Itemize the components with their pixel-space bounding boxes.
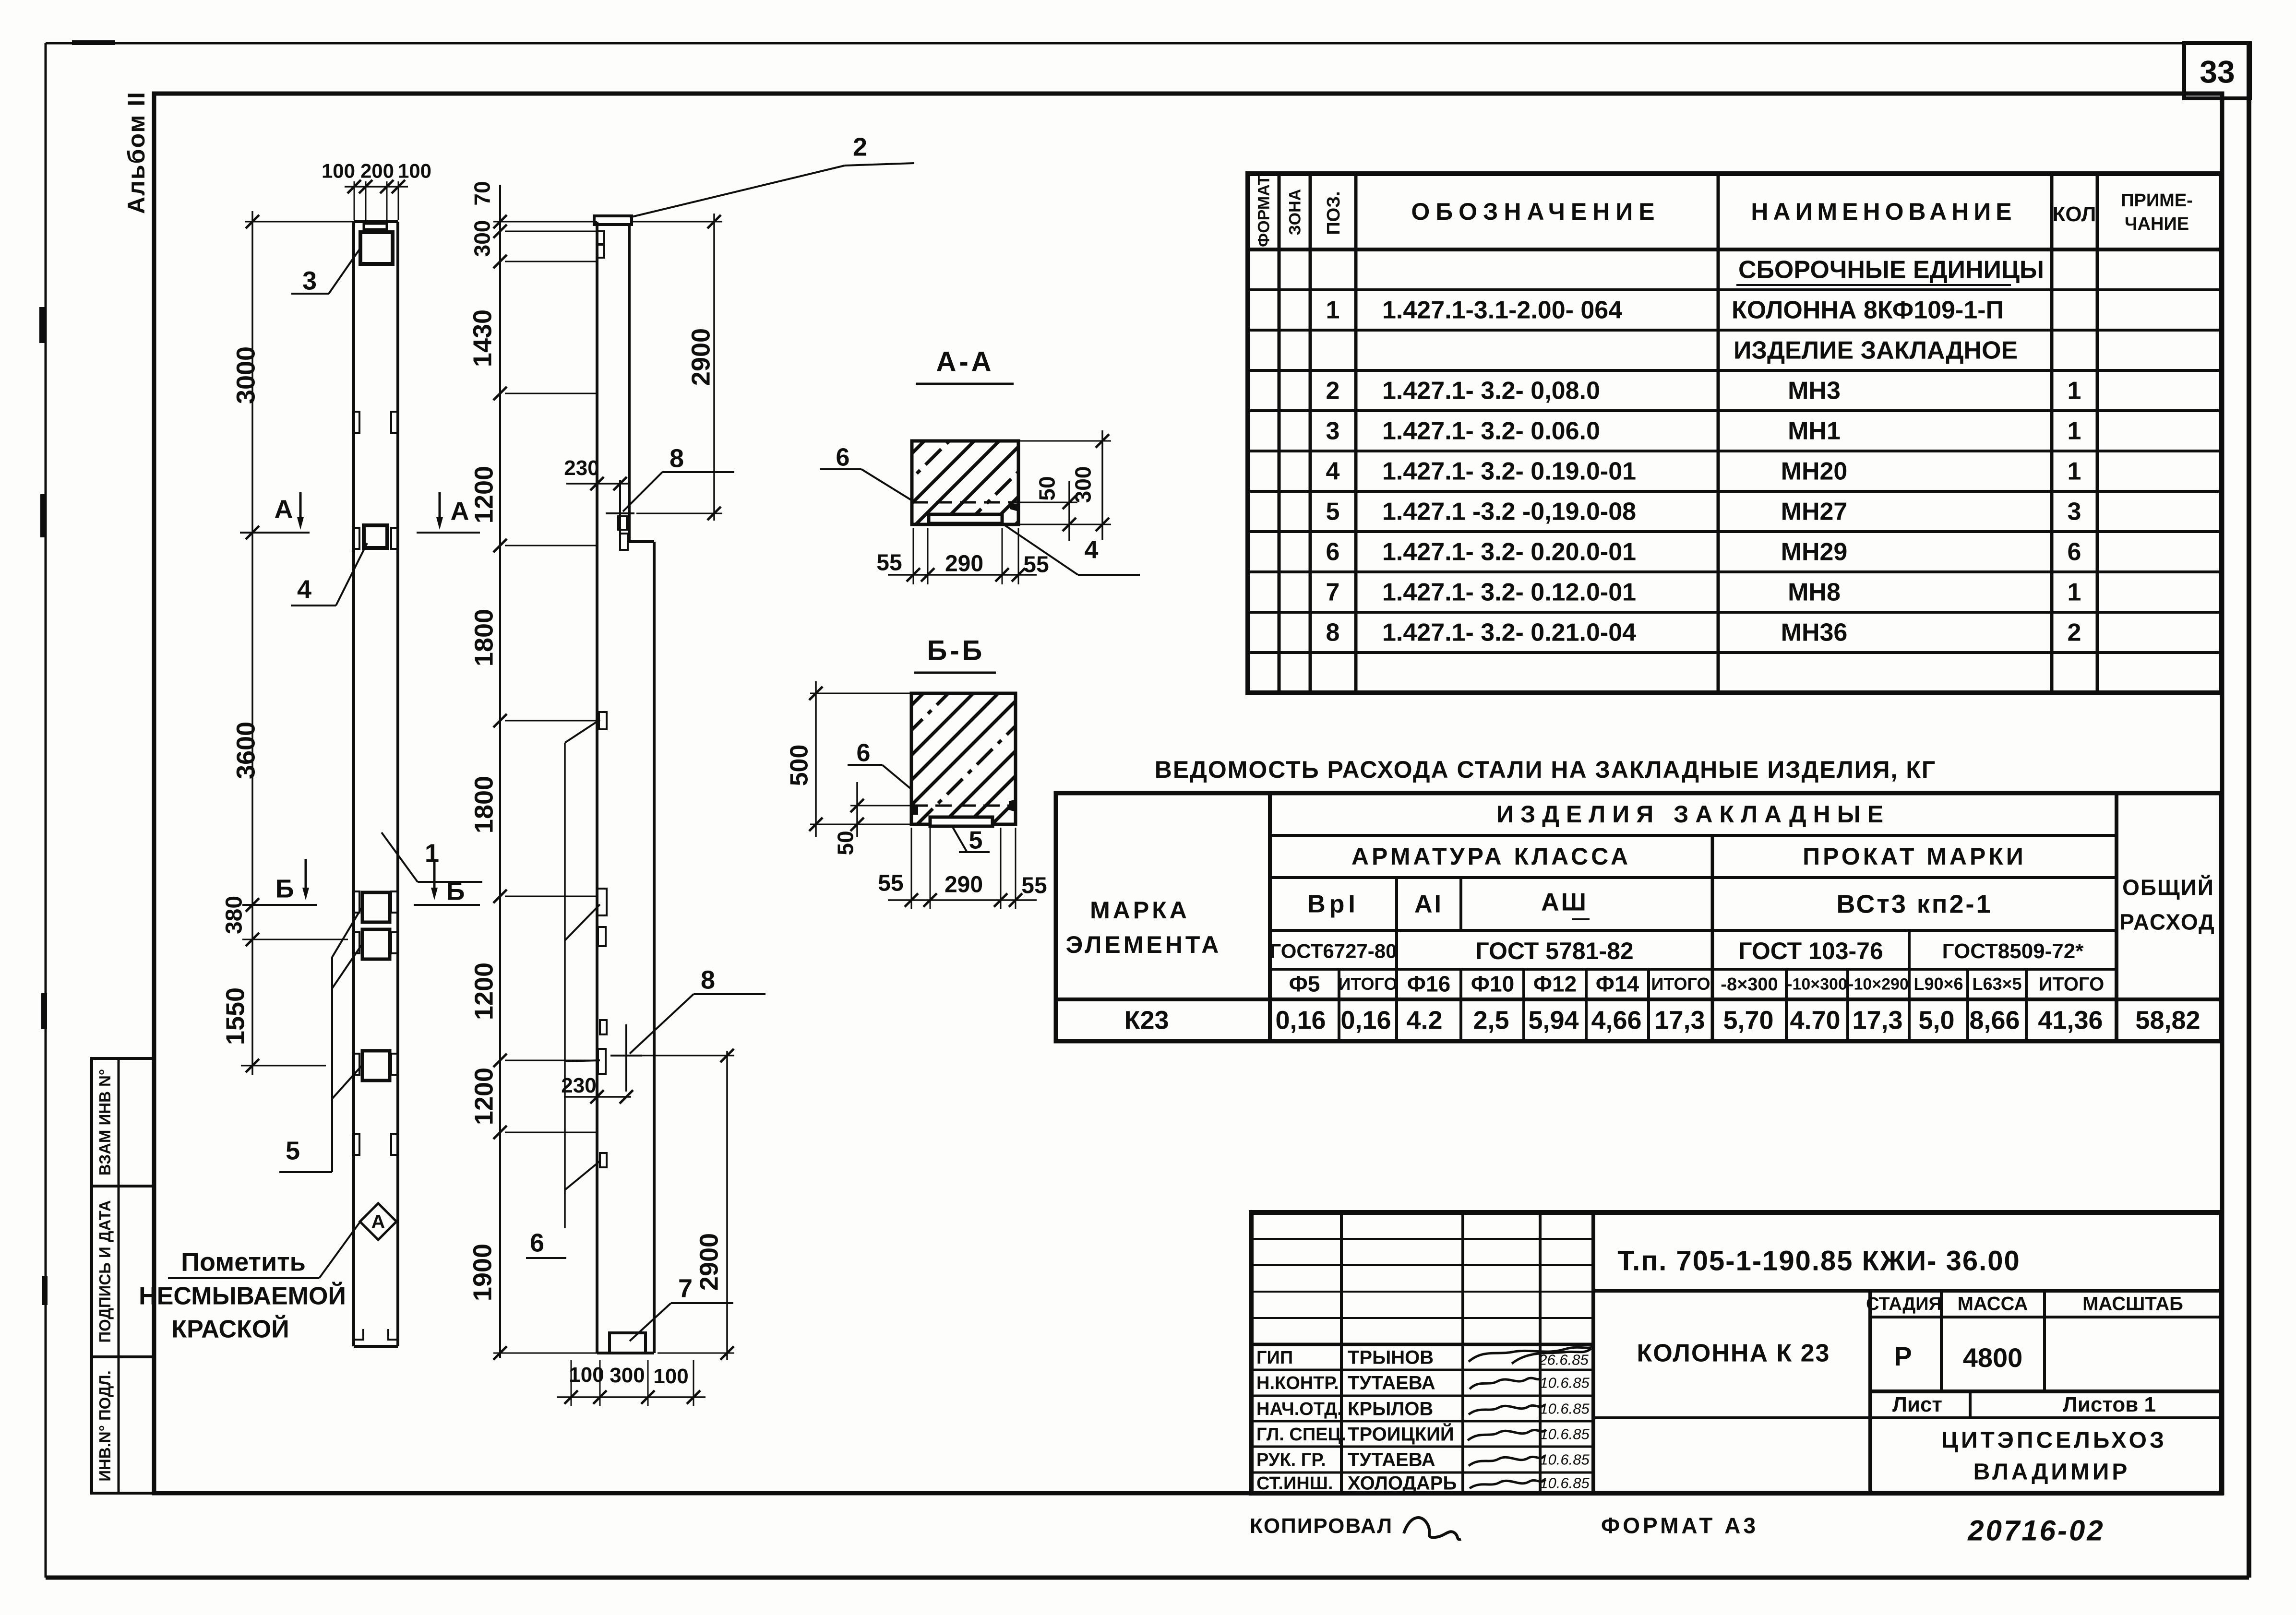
svg-text:Ф10: Ф10 <box>1471 972 1514 997</box>
svg-text:Ф16: Ф16 <box>1407 972 1450 997</box>
svg-text:Б: Б <box>275 874 294 903</box>
svg-text:100: 100 <box>322 159 355 182</box>
svg-text:6: 6 <box>1326 538 1340 566</box>
svg-text:А-А: А-А <box>936 346 994 378</box>
svg-text:Листов 1: Листов 1 <box>2063 1393 2156 1416</box>
svg-text:АШ: АШ <box>1541 889 1588 916</box>
svg-text:А: А <box>371 1211 385 1233</box>
svg-text:4.2: 4.2 <box>1406 1006 1442 1034</box>
svg-text:НАИМЕНОВАНИЕ: НАИМЕНОВАНИЕ <box>1751 198 2016 225</box>
svg-text:-8×300: -8×300 <box>1721 974 1778 995</box>
svg-text:МН8: МН8 <box>1788 579 1841 606</box>
svg-text:10.6.85: 10.6.85 <box>1540 1451 1590 1468</box>
svg-text:ТРЫНОВ: ТРЫНОВ <box>1348 1347 1434 1368</box>
svg-text:1900: 1900 <box>468 1244 497 1301</box>
svg-text:6: 6 <box>836 444 850 472</box>
svg-text:5: 5 <box>969 827 983 855</box>
svg-text:10.6.85: 10.6.85 <box>1540 1426 1590 1443</box>
svg-text:А: А <box>275 495 293 523</box>
svg-text:ГОСТ8509-72*: ГОСТ8509-72* <box>1942 939 2084 963</box>
svg-text:ИЗДЕЛИЯ ЗАКЛАДНЫЕ: ИЗДЕЛИЯ ЗАКЛАДНЫЕ <box>1496 801 1890 828</box>
svg-text:1430: 1430 <box>468 309 497 367</box>
svg-text:290: 290 <box>945 872 983 897</box>
svg-text:6: 6 <box>2068 538 2081 566</box>
svg-text:ОБЩИЙ: ОБЩИЙ <box>2122 875 2214 900</box>
svg-text:5,70: 5,70 <box>1723 1006 1773 1034</box>
svg-text:ГИП: ГИП <box>1256 1348 1293 1368</box>
svg-text:КОЛОННА 8КФ109-1-П: КОЛОННА 8КФ109-1-П <box>1732 297 2004 324</box>
svg-text:3000: 3000 <box>231 346 260 404</box>
svg-text:1.427.1- 3.2- 0.20.0-01: 1.427.1- 3.2- 0.20.0-01 <box>1382 538 1636 566</box>
svg-text:КРЫЛОВ: КРЫЛОВ <box>1348 1399 1433 1420</box>
svg-text:Н.КОНТР.: Н.КОНТР. <box>1256 1373 1339 1393</box>
svg-text:-10×290: -10×290 <box>1848 975 1909 994</box>
svg-text:МН29: МН29 <box>1781 538 1848 566</box>
svg-text:20716-02: 20716-02 <box>1967 1514 2105 1546</box>
svg-text:1: 1 <box>2068 458 2081 486</box>
svg-text:55: 55 <box>1023 552 1049 577</box>
svg-text:17,3: 17,3 <box>1852 1006 1902 1034</box>
svg-text:ВСт3 кп2-1: ВСт3 кп2-1 <box>1836 890 1992 918</box>
svg-text:0,16: 0,16 <box>1275 1006 1326 1034</box>
svg-text:ГОСТ 103-76: ГОСТ 103-76 <box>1738 938 1883 964</box>
svg-text:10.6.85: 10.6.85 <box>1540 1401 1590 1417</box>
svg-text:КОПИРОВАЛ: КОПИРОВАЛ <box>1250 1514 1393 1538</box>
svg-text:41,36: 41,36 <box>2038 1006 2103 1034</box>
svg-text:ВЛАДИМИР: ВЛАДИМИР <box>1973 1459 2130 1484</box>
svg-text:Ф5: Ф5 <box>1289 972 1320 997</box>
svg-text:ПРОКАТ МАРКИ: ПРОКАТ МАРКИ <box>1803 843 2026 870</box>
svg-text:10.6.85: 10.6.85 <box>1540 1375 1590 1391</box>
svg-text:ОБОЗНАЧЕНИЕ: ОБОЗНАЧЕНИЕ <box>1411 198 1660 225</box>
svg-text:1200: 1200 <box>469 466 498 523</box>
svg-text:380: 380 <box>221 896 247 934</box>
svg-text:1: 1 <box>1326 297 1340 324</box>
svg-text:МАССА: МАССА <box>1958 1294 2028 1315</box>
svg-text:3: 3 <box>1326 417 1340 445</box>
svg-text:Р: Р <box>1894 1341 1912 1371</box>
svg-text:1: 1 <box>2068 377 2081 405</box>
svg-text:ЗОНА: ЗОНА <box>1286 189 1304 235</box>
svg-text:Альбом II: Альбом II <box>123 91 150 214</box>
svg-text:Ф14: Ф14 <box>1596 972 1639 997</box>
svg-text:КРАСКОЙ: КРАСКОЙ <box>171 1315 289 1343</box>
svg-text:7: 7 <box>1326 579 1340 606</box>
svg-text:ПРИМЕ-: ПРИМЕ- <box>2121 190 2193 211</box>
svg-text:ЭЛЕМЕНТА: ЭЛЕМЕНТА <box>1066 931 1222 958</box>
svg-text:1.427.1- 3.2- 0,08.0: 1.427.1- 3.2- 0,08.0 <box>1382 377 1600 405</box>
svg-text:4: 4 <box>1085 536 1099 564</box>
svg-text:1200: 1200 <box>469 962 498 1020</box>
svg-text:8: 8 <box>670 444 684 473</box>
svg-text:ФОРМАТ А3: ФОРМАТ А3 <box>1601 1513 1758 1538</box>
svg-text:ВЗАМ ИНВ N°: ВЗАМ ИНВ N° <box>96 1069 114 1176</box>
svg-text:МН1: МН1 <box>1788 417 1841 445</box>
svg-text:6: 6 <box>530 1228 544 1257</box>
svg-text:200: 200 <box>360 159 394 182</box>
svg-text:2: 2 <box>2068 619 2081 647</box>
svg-text:ИНВ.N° ПОДЛ.: ИНВ.N° ПОДЛ. <box>96 1370 114 1482</box>
svg-text:55: 55 <box>878 870 903 896</box>
svg-text:ИТОГО: ИТОГО <box>1651 974 1710 994</box>
svg-text:55: 55 <box>876 550 902 575</box>
svg-text:МАРКА: МАРКА <box>1090 897 1190 924</box>
svg-text:300: 300 <box>470 220 495 257</box>
svg-text:50: 50 <box>1035 476 1060 500</box>
svg-text:1.427.1 -3.2 -0,19.0-08: 1.427.1 -3.2 -0,19.0-08 <box>1382 498 1636 526</box>
svg-text:НЕСМЫВАЕМОЙ: НЕСМЫВАЕМОЙ <box>139 1282 346 1310</box>
svg-text:1.427.1- 3.2- 0.06.0: 1.427.1- 3.2- 0.06.0 <box>1382 417 1600 445</box>
svg-text:1: 1 <box>425 839 439 867</box>
svg-text:МАСШТАБ: МАСШТАБ <box>2082 1294 2183 1315</box>
svg-text:ХОЛОДАРЬ: ХОЛОДАРЬ <box>1348 1473 1457 1494</box>
svg-text:1.427.1-3.1-2.00- 064: 1.427.1-3.1-2.00- 064 <box>1382 297 1622 324</box>
svg-text:1200: 1200 <box>469 1068 498 1125</box>
svg-text:ГОСТ6727-80: ГОСТ6727-80 <box>1269 939 1397 962</box>
svg-text:СТ.ИНШ.: СТ.ИНШ. <box>1256 1473 1333 1494</box>
svg-text:50: 50 <box>833 831 858 855</box>
svg-text:1: 1 <box>2068 579 2081 606</box>
svg-text:26.6.85: 26.6.85 <box>1538 1352 1589 1368</box>
svg-text:2: 2 <box>1326 377 1340 405</box>
svg-text:СТАДИЯ: СТАДИЯ <box>1866 1294 1942 1314</box>
svg-text:1800: 1800 <box>469 609 498 666</box>
svg-text:4: 4 <box>297 575 311 604</box>
svg-text:Пометить: Пометить <box>181 1247 306 1276</box>
svg-text:55: 55 <box>1021 873 1047 898</box>
svg-text:Т.п. 705-1-190.85 КЖИ- 36.00: Т.п. 705-1-190.85 КЖИ- 36.00 <box>1617 1246 2021 1277</box>
svg-text:ЦИТЭПСЕЛЬХОЗ: ЦИТЭПСЕЛЬХОЗ <box>1941 1427 2167 1453</box>
svg-text:ТРОИЦКИЙ: ТРОИЦКИЙ <box>1348 1423 1454 1445</box>
svg-text:4,66: 4,66 <box>1591 1006 1641 1034</box>
svg-text:ТУТАЕВА: ТУТАЕВА <box>1348 1449 1435 1471</box>
svg-text:Б-Б: Б-Б <box>927 635 985 666</box>
svg-text:5,0: 5,0 <box>1918 1006 1954 1034</box>
svg-text:1.427.1- 3.2- 0.12.0-01: 1.427.1- 3.2- 0.12.0-01 <box>1382 579 1636 606</box>
svg-text:230: 230 <box>564 456 599 480</box>
svg-text:8: 8 <box>1326 619 1340 647</box>
svg-text:300: 300 <box>1071 466 1096 503</box>
svg-text:300: 300 <box>610 1364 645 1387</box>
svg-text:ИЗДЕЛИЕ ЗАКЛАДНОЕ: ИЗДЕЛИЕ ЗАКЛАДНОЕ <box>1734 337 2018 365</box>
svg-text:2: 2 <box>853 132 867 161</box>
svg-text:4800: 4800 <box>1963 1342 2023 1373</box>
svg-text:L90×6: L90×6 <box>1913 974 1963 994</box>
svg-text:230: 230 <box>561 1074 596 1097</box>
svg-text:ФОРМАТ: ФОРМАТ <box>1255 175 1273 247</box>
svg-text:2900: 2900 <box>686 328 715 386</box>
svg-text:100: 100 <box>569 1363 604 1387</box>
svg-text:290: 290 <box>945 551 983 576</box>
svg-text:33: 33 <box>2200 54 2235 89</box>
svg-text:58,82: 58,82 <box>2135 1006 2200 1034</box>
svg-text:3: 3 <box>2068 498 2081 526</box>
svg-text:5: 5 <box>286 1136 300 1165</box>
svg-text:10.6.85: 10.6.85 <box>1540 1475 1590 1492</box>
svg-text:КОЛ: КОЛ <box>2053 202 2096 226</box>
svg-text:2,5: 2,5 <box>1473 1006 1509 1034</box>
svg-text:МН36: МН36 <box>1781 619 1848 647</box>
svg-text:ВрI: ВрI <box>1307 891 1359 918</box>
svg-text:4.70: 4.70 <box>1790 1006 1840 1034</box>
svg-text:ПОЗ.: ПОЗ. <box>1324 191 1344 235</box>
svg-text:500: 500 <box>786 745 813 786</box>
svg-text:КОЛОННА К 23: КОЛОННА К 23 <box>1637 1340 1830 1367</box>
svg-text:АРМАТУРА КЛАССА: АРМАТУРА КЛАССА <box>1351 843 1631 870</box>
svg-text:АI: АI <box>1414 891 1443 918</box>
svg-text:5,94: 5,94 <box>1528 1006 1578 1034</box>
svg-text:70: 70 <box>470 181 495 205</box>
svg-text:Лист: Лист <box>1892 1393 1942 1416</box>
svg-text:РУК. ГР.: РУК. ГР. <box>1256 1450 1326 1470</box>
svg-text:1: 1 <box>2068 417 2081 445</box>
svg-text:8,66: 8,66 <box>1969 1006 2020 1034</box>
svg-text:СБОРОЧНЫЕ ЕДИНИЦЫ: СБОРОЧНЫЕ ЕДИНИЦЫ <box>1738 256 2044 284</box>
svg-text:L63×5: L63×5 <box>1972 974 2021 994</box>
svg-text:2900: 2900 <box>694 1233 723 1291</box>
svg-text:1.427.1- 3.2- 0.21.0-04: 1.427.1- 3.2- 0.21.0-04 <box>1382 619 1636 647</box>
svg-text:3: 3 <box>302 266 317 295</box>
svg-text:А: А <box>451 497 469 525</box>
svg-text:100: 100 <box>398 159 431 182</box>
svg-text:0,16: 0,16 <box>1340 1006 1391 1034</box>
svg-text:Ф12: Ф12 <box>1533 972 1577 997</box>
svg-text:3600: 3600 <box>231 722 260 779</box>
svg-text:НАЧ.ОТД.: НАЧ.ОТД. <box>1256 1399 1342 1419</box>
svg-text:ТУТАЕВА: ТУТАЕВА <box>1348 1373 1435 1394</box>
svg-text:1.427.1- 3.2- 0.19.0-01: 1.427.1- 3.2- 0.19.0-01 <box>1382 458 1636 486</box>
svg-text:6: 6 <box>857 739 871 767</box>
svg-text:ГЛ. СПЕЦ.: ГЛ. СПЕЦ. <box>1256 1425 1346 1445</box>
svg-text:7: 7 <box>678 1274 693 1303</box>
svg-text:ИТОГО: ИТОГО <box>1339 974 1398 994</box>
svg-text:ГОСТ 5781-82: ГОСТ 5781-82 <box>1475 938 1633 964</box>
svg-text:5: 5 <box>1326 498 1340 526</box>
svg-text:8: 8 <box>701 965 715 994</box>
svg-text:1800: 1800 <box>469 776 498 833</box>
svg-text:100: 100 <box>653 1365 688 1388</box>
svg-text:ЧАНИЕ: ЧАНИЕ <box>2125 214 2189 234</box>
svg-text:17,3: 17,3 <box>1654 1006 1705 1034</box>
svg-text:ВЕДОМОСТЬ РАСХОДА СТАЛИ НА: ВЕДОМОСТЬ РАСХОДА СТАЛИ НА ЗАКЛАДНЫЕ ИЗД… <box>1155 756 1936 783</box>
svg-text:МН27: МН27 <box>1781 498 1848 526</box>
svg-text:МН20: МН20 <box>1781 458 1848 486</box>
svg-text:ПОДПИСЬ И ДАТА: ПОДПИСЬ И ДАТА <box>96 1200 114 1342</box>
svg-text:К23: К23 <box>1124 1006 1169 1034</box>
svg-text:-10×300: -10×300 <box>1787 975 1847 994</box>
svg-text:РАСХОД: РАСХОД <box>2119 910 2215 935</box>
svg-text:ИТОГО: ИТОГО <box>2039 974 2105 995</box>
svg-text:4: 4 <box>1326 458 1340 486</box>
svg-text:МН3: МН3 <box>1788 377 1841 405</box>
svg-text:1550: 1550 <box>221 987 250 1045</box>
